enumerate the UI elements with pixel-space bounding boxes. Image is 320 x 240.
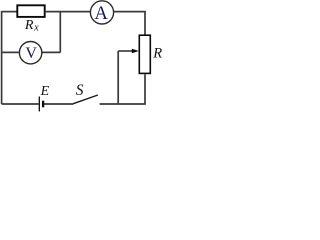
svg-text:V: V	[25, 45, 37, 62]
wire wiper down to bottom bus	[117, 51, 119, 104]
battery E long plate	[38, 97, 40, 112]
resistor R_x body	[17, 5, 44, 17]
battery E short plate	[42, 101, 44, 108]
rheostat R body	[139, 35, 150, 73]
svg-text:R: R	[152, 46, 162, 62]
wire ammeter to top-right corner and down to rheostat	[114, 12, 145, 35]
svg-text:A: A	[95, 4, 109, 24]
wire voltmeter left terminal to left bus	[2, 51, 20, 53]
svg-text:S: S	[76, 82, 84, 99]
wiper arrow of rheostat	[118, 49, 139, 54]
svg-text:E: E	[40, 84, 50, 99]
wire rheostat bottom to bottom bus	[100, 74, 145, 104]
node junction voltmeter branch	[59, 12, 61, 53]
ammeter A circle	[90, 1, 113, 24]
wire battery to switch pivot	[44, 103, 74, 105]
wire resistor Rx to ammeter	[45, 11, 90, 13]
switch S blade	[73, 95, 98, 104]
label R_x	[24, 18, 39, 33]
wire junction down to voltmeter right terminal	[42, 51, 60, 53]
svg-text:x: x	[33, 22, 39, 33]
wire left vertical bus	[1, 11, 3, 104]
wire bottom bus left to battery	[2, 103, 39, 105]
voltmeter V circle	[19, 42, 41, 64]
svg-text:R: R	[24, 18, 34, 33]
wire top-left horizontal (node to resistor Rx)	[2, 11, 17, 13]
